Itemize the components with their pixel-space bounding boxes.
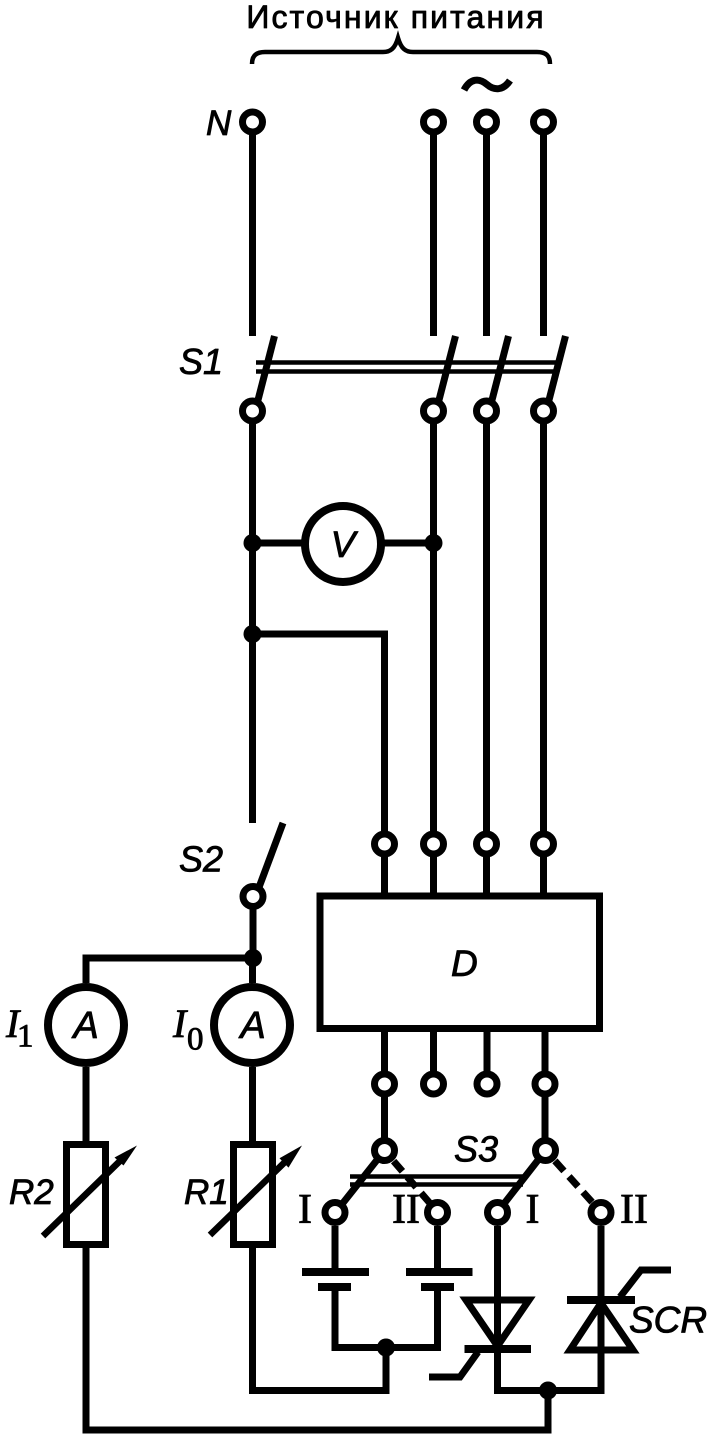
capacitor C1 [302, 1272, 369, 1287]
gate of SCR [620, 1270, 671, 1297]
wire: voltmeter right lead [379, 540, 434, 547]
wire: R2 bottom to bottom rail [86, 1244, 548, 1430]
junction: ammeter branch [244, 949, 262, 967]
pin circle below D pin3 [477, 1074, 497, 1094]
pin circle above D pin1 [375, 834, 395, 854]
svg-text:R2: R2 [9, 1173, 54, 1212]
svg-text:A: A [238, 1005, 265, 1047]
thyristor SCR (pointing up) [567, 1300, 635, 1350]
wire: terminal 4 down to S1 [540, 133, 547, 336]
wire: contact II left to C2 [434, 1226, 441, 1268]
capacitor C2 [406, 1272, 473, 1287]
brace: power supply group [252, 38, 550, 64]
wire: S2 down to junction [250, 907, 257, 958]
voltmeter V [305, 506, 381, 582]
wire: S1 pole3 down to D pin [483, 424, 490, 834]
svg-text:SCR: SCR [629, 1300, 707, 1341]
pin circle below D pin1 [375, 1074, 395, 1094]
contact I right [488, 1203, 508, 1223]
wire: N terminal down to S1 [249, 133, 256, 336]
contact I left [325, 1203, 345, 1223]
resistor R2 [67, 1145, 106, 1245]
switch S2 contact [243, 887, 263, 907]
wire: C1 to cap junction [335, 1291, 438, 1348]
junction: V right [425, 534, 443, 552]
svg-text:S1: S1 [179, 341, 223, 382]
wire: S1 pole2 down to D pin [430, 424, 437, 834]
contact II left [428, 1203, 448, 1223]
svg-text:D: D [451, 943, 478, 984]
svg-text:S3: S3 [454, 1129, 498, 1170]
pin circle below D pin4 [535, 1074, 555, 1094]
junction: branch point [244, 625, 262, 643]
svg-text:I: I [298, 1187, 312, 1233]
svg-text:I: I [172, 1001, 188, 1046]
wire: contact I left to C1 [332, 1226, 339, 1268]
linkage bar S3 [350, 1177, 523, 1185]
junction: thyristor common [539, 1382, 557, 1400]
pin circle above D pin2 [424, 834, 444, 854]
wire: I1 to R2 [83, 1067, 90, 1145]
switch S2 blade [258, 823, 283, 890]
junction: capacitors common [377, 1339, 395, 1357]
junction: V left [244, 534, 262, 552]
ammeter I1 [48, 987, 124, 1063]
wire: S1 pole1 down to S2 [249, 424, 256, 823]
svg-text:N: N [206, 104, 232, 143]
wire: I0 to R1 [249, 1067, 256, 1145]
thyristor VS1 (triac half, pointing down) [465, 1300, 532, 1349]
AC tilde symbol [464, 80, 510, 90]
pin circle above D pin4 [534, 834, 554, 854]
wire: pin stubs below D [385, 1028, 546, 1071]
svg-text:I: I [526, 1187, 540, 1233]
switch S1 [243, 336, 566, 421]
terminal 2 [424, 112, 444, 132]
wire: pin1 to S3 pivot [381, 1097, 388, 1138]
wire: R1 bottom to cap junction [253, 1244, 387, 1391]
pivot circle S3 left [375, 1141, 395, 1161]
wire: pin4 to S3 pivot [542, 1097, 549, 1138]
wire: terminal 3 down to S1 [483, 133, 490, 336]
wire: terminal 2 down to S1 [430, 133, 437, 336]
wire: contact I right down through thyristor [498, 1226, 602, 1391]
wire: voltmeter left lead [253, 540, 308, 547]
svg-text:R1: R1 [184, 1173, 229, 1212]
blade S3 right solid [498, 1151, 546, 1213]
arrow of R1 [210, 1146, 302, 1236]
terminal N [243, 112, 263, 132]
ammeter I0 [214, 987, 290, 1063]
svg-text:A: A [71, 1005, 98, 1047]
wire: branch to D pin1 [253, 634, 385, 834]
blade S3 left solid [335, 1151, 385, 1214]
switch S3 [325, 1141, 611, 1223]
pin circle above D pin3 [477, 834, 497, 854]
pin circle below D pin2 [424, 1074, 444, 1094]
arrow of R2 [43, 1146, 137, 1237]
wire: down to ammeter I0 [249, 958, 256, 983]
blade S3 right dashed [555, 1161, 601, 1212]
svg-text:II: II [620, 1187, 648, 1233]
terminal 3 [477, 112, 497, 132]
block D [320, 896, 600, 1029]
svg-text:Источник питания: Источник питания [246, 0, 545, 35]
wire: pin stubs into D [385, 857, 544, 896]
contact II right [591, 1203, 611, 1223]
terminal 4 [534, 112, 554, 132]
blade S3 left dashed [394, 1161, 438, 1212]
gate of VS1 [429, 1352, 478, 1377]
svg-text:II: II [392, 1187, 420, 1233]
label I1 [5, 1001, 34, 1055]
svg-text:V: V [331, 524, 359, 565]
svg-text:0: 0 [187, 1022, 204, 1058]
svg-text:1: 1 [17, 1019, 34, 1055]
svg-text:S2: S2 [179, 839, 223, 880]
label I0 [172, 1001, 204, 1058]
wire: S1 pole4 down to D pin [540, 424, 547, 834]
pivot circle S3 right [536, 1141, 556, 1161]
wire: junction to ammeter I1 [86, 958, 253, 983]
resistor R1 [234, 1145, 273, 1245]
